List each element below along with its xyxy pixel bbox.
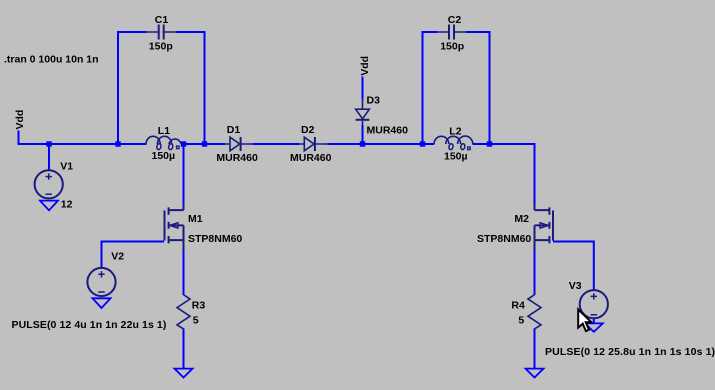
wire D3 upper lead from Vdd [362, 77, 364, 100]
svg-text:STP8NM60: STP8NM60 [477, 233, 531, 245]
wire C2 right vertical [489, 31, 491, 145]
wire R3 to ground [183, 329, 185, 369]
wire C1 top right [176, 31, 206, 33]
svg-text:PULSE(0 12 4u 1n 1n 22u 1s 1): PULSE(0 12 4u 1n 1n 22u 1s 1) [12, 319, 167, 331]
ground under V2 [93, 298, 111, 308]
svg-text:D3: D3 [367, 94, 381, 106]
wire V3 bottom lead [593, 319, 595, 324]
wire C1 right vertical [204, 31, 206, 145]
capacitor C1 [146, 14, 176, 52]
svg-text:D2: D2 [301, 124, 315, 136]
svg-text:150µ: 150µ [152, 150, 176, 162]
svg-text:5: 5 [193, 315, 199, 327]
diode D2 [290, 124, 332, 164]
mosfet M1 [165, 204, 243, 250]
wire V2 to M1 gate [102, 242, 165, 269]
wire M2 source to R4 [534, 250, 536, 296]
svg-text:V3: V3 [569, 280, 582, 292]
svg-text:150p: 150p [149, 40, 173, 52]
ground under R3 [175, 369, 193, 378]
inductor L2 [434, 125, 473, 162]
svg-text:M1: M1 [188, 213, 203, 225]
junction at D3 anode [360, 141, 365, 146]
wire rail D2-to-L2 [327, 143, 434, 145]
junction at C1 left [115, 141, 120, 146]
wire C2 left vertical [422, 31, 424, 145]
wire M2 gate to V3 [553, 241, 595, 291]
junction at C2 right / L2 right [487, 141, 492, 146]
wire rail L2 to M2 drain [473, 143, 535, 204]
node Vdd (middle flag) [359, 56, 371, 76]
svg-text:Vdd: Vdd [14, 110, 26, 130]
wire rail D1-to-D2 [253, 143, 300, 145]
svg-text:MUR460: MUR460 [290, 152, 332, 164]
svg-text:R3: R3 [192, 299, 206, 311]
wire M1 drain drop [183, 145, 185, 204]
svg-text:Vdd: Vdd [359, 56, 371, 76]
svg-text:D1: D1 [227, 124, 241, 136]
svg-text:L1: L1 [158, 125, 170, 137]
node Vdd (left flag) [14, 110, 26, 130]
mosfet M2 [477, 204, 553, 250]
wire C1 top left [117, 31, 147, 33]
voltage source V3 [569, 280, 608, 319]
inductor L1 [146, 125, 181, 162]
wire V1 top lead [48, 143, 50, 170]
mouse cursor [578, 309, 591, 331]
wire main rail left segment [18, 143, 147, 145]
ground under R4 [526, 369, 544, 378]
svg-text:150µ: 150µ [444, 150, 468, 162]
svg-text:5: 5 [518, 315, 524, 327]
wire C1 left vertical [117, 31, 119, 145]
wire C2 top left [422, 31, 438, 33]
svg-text:12: 12 [61, 199, 73, 211]
svg-text:MUR460: MUR460 [216, 152, 258, 164]
svg-text:STP8NM60: STP8NM60 [188, 233, 242, 245]
svg-text:V2: V2 [111, 250, 124, 262]
junction at C2 left / L2 left [420, 141, 425, 146]
svg-text:PULSE(0 12 25.8u 1n 1n 1s 10s: PULSE(0 12 25.8u 1n 1n 1s 10s 1) [545, 346, 715, 358]
svg-text:V1: V1 [60, 160, 73, 172]
junction at L1 right / M1 drain [181, 141, 186, 146]
resistor R4 [511, 295, 541, 329]
svg-text:MUR460: MUR460 [367, 124, 409, 136]
diode D3 [356, 94, 408, 136]
wire D3 lower lead to rail [362, 125, 364, 145]
ground under V3 [585, 323, 603, 331]
capacitor C2 [437, 14, 466, 52]
diode D1 [216, 124, 258, 164]
junction at C1 right [202, 141, 207, 146]
wire R4 to ground [534, 329, 536, 369]
wire M1 source to R3 [183, 250, 185, 296]
svg-text:L2: L2 [449, 125, 461, 137]
wire Vdd left stub [18, 131, 20, 144]
voltage source V1 [35, 160, 74, 210]
svg-text:150p: 150p [440, 40, 464, 52]
voltage source V2 [87, 250, 124, 296]
svg-text:R4: R4 [511, 299, 525, 311]
svg-text:C1: C1 [155, 14, 169, 26]
resistor R3 [177, 295, 205, 329]
svg-text:.tran 0 100u 10n 1n: .tran 0 100u 10n 1n [4, 53, 99, 65]
junction at V1 tap [46, 141, 51, 146]
svg-text:C2: C2 [448, 14, 462, 26]
svg-text:M2: M2 [514, 213, 529, 225]
wire C2 top right [466, 31, 491, 33]
ground under V1 [40, 201, 58, 211]
wire rail L1-to-D1 [181, 143, 225, 145]
